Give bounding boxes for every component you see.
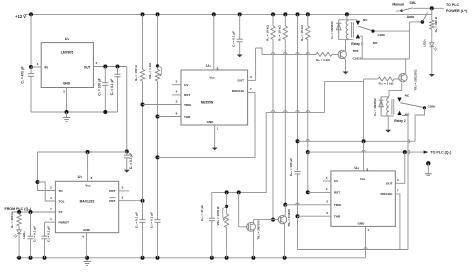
svg-text:C₁₁ = 47 µF: C₁₁ = 47 µF: [200, 205, 204, 221]
svg-text:THR: THR: [334, 214, 341, 218]
relay 2 NO contact: [397, 111, 401, 115]
wire U3 DISCHG pin 7: [248, 91, 255, 93]
svg-text:C₇ = 0.1 µF: C₇ = 0.1 µF: [129, 153, 133, 169]
wire relay1 COM to auto contact: [375, 30, 410, 32]
wire switch to PLC power node: [413, 7, 444, 9]
wire U3 OUT pin 3: [248, 79, 256, 81]
svg-text:R₇ = 460 Ω: R₇ = 460 Ω: [10, 212, 14, 228]
transistor TR3 C1815: [338, 50, 346, 58]
relay 2 NC contact: [397, 98, 401, 102]
svg-text:DISCHG: DISCHG: [232, 89, 245, 93]
ground regulator earth symbol: [66, 112, 68, 118]
wire TR1 base row: [253, 219, 278, 221]
svg-text:R₆ = 10 kΩ: R₆ = 10 kΩ: [300, 25, 304, 41]
wire bottom ground rail: [16, 257, 366, 259]
wire U4 RST pin 4 row: [308, 191, 331, 193]
svg-text:TRIG: TRIG: [184, 103, 192, 107]
svg-text:NC: NC: [405, 94, 410, 98]
svg-text:RST: RST: [334, 191, 340, 195]
svg-text:Manual: Manual: [392, 3, 404, 7]
svg-text:TR₁ = C1815: TR₁ = C1815: [287, 209, 291, 227]
resistor R7 = 460 ohm: [18, 212, 20, 215]
wire relay2 NO down to lower row: [402, 116, 408, 250]
wire U4 CV pin 5 stub: [323, 180, 331, 182]
wire TR4 drain to TR1 base row: [252, 220, 254, 225]
svg-text:Vcc: Vcc: [209, 76, 215, 80]
wire GND pin 3: [66, 88, 68, 113]
potentiometer VR1 = 1 kohm: [157, 14, 159, 69]
svg-text:Vcc: Vcc: [360, 177, 366, 181]
svg-text:R₁₀ = 1 kΩ: R₁₀ = 1 kΩ: [379, 81, 394, 85]
svg-text:R₄ = 10 kΩ: R₄ = 10 kΩ: [265, 25, 269, 41]
op-amp U2 MAX1232 box: [55, 181, 118, 232]
diode D1 = 1N4002: [338, 20, 340, 40]
wire U2 RST pin 5 stub: [119, 190, 129, 192]
svg-text:NC: NC: [363, 18, 368, 22]
wire U4 TRIG pin 2 row: [285, 204, 331, 206]
wire U3 Vcc pin 8 column: [213, 14, 215, 70]
resistor R9 = 1 kohm: [316, 52, 332, 56]
relay 2 coil: [381, 96, 389, 98]
wire TR1 collector: [284, 215, 287, 216]
wire TR2 emitter to coil: [389, 83, 402, 97]
LED1: [431, 29, 433, 42]
svg-text:OUT: OUT: [237, 79, 244, 83]
svg-text:ST: ST: [59, 210, 63, 214]
wire timing row to gate/pot: [212, 112, 266, 192]
wire LED1 to ground: [431, 47, 433, 74]
wire relay2 coil to ground: [387, 116, 389, 130]
capacitor C3 = 0.1 uF: [117, 67, 119, 75]
wire OUT pin 2 (+5V): [93, 66, 126, 68]
wire top +12V rail: [31, 13, 432, 15]
resistor R5 = 10 kohm: [284, 14, 286, 26]
wire VR1 to THR node and C5 column: [157, 81, 159, 220]
wire U3 GND pin 1 to ground: [214, 125, 216, 148]
node TO PLC (Q1): [308, 151, 425, 153]
wire TR3 collector to coil: [345, 40, 347, 51]
svg-text:U₂: U₂: [78, 174, 83, 179]
wire relay1 NO to TR2 collector: [360, 36, 409, 59]
wire +12V drop to IN: [30, 14, 32, 67]
capacitor C10 = 100 uF: [295, 170, 301, 172]
capacitor C1 = 470 uF: [30, 67, 32, 74]
svg-text:NO: NO: [373, 41, 378, 45]
wire U2 TOL pin 3: [38, 182, 56, 201]
svg-text:C₁ = 470 µF: C₁ = 470 µF: [21, 66, 25, 83]
wire U2 TD pin 2: [38, 190, 56, 192]
wire U2 Vcc pin 8: [87, 152, 89, 181]
wire U3 RST pin 4 stub: [172, 94, 181, 96]
svg-text:TO PLC (Q₁): TO PLC (Q₁): [431, 151, 453, 155]
wire TR1 emitter: [284, 223, 286, 225]
svg-text:C₈ = 0.1 µF: C₈ = 0.1 µF: [33, 226, 37, 242]
wire OUT top run to R9: [256, 48, 316, 54]
svg-text:RST: RST: [109, 199, 115, 203]
svg-text:LED₂: LED₂: [22, 231, 26, 239]
wire U4 Vcc pin 8 drop: [363, 141, 365, 171]
svg-text:C₁₀ = 100 µF: C₁₀ = 100 µF: [289, 158, 293, 176]
wire U4 GND pin 1: [365, 226, 367, 257]
wire regulator ground bus: [31, 111, 118, 113]
capacitor C5 = 0.1 uF: [155, 219, 161, 221]
diode D2 = 1N4002: [380, 97, 382, 116]
wire U4 DISCHG pin 7: [395, 194, 400, 250]
capacitor C11 = 47 uF: [211, 192, 213, 218]
wire +5V Vcc row: [38, 151, 127, 153]
wire U2 GND pin 4: [85, 233, 87, 258]
wire U2 ST pin 7: [12, 211, 55, 213]
svg-text:OUT: OUT: [386, 182, 393, 186]
wire R5 column to TRIG2 node: [284, 40, 286, 205]
wire +5V drop to Vcc row: [126, 67, 128, 152]
wire U3 CV pin 5 stub: [172, 84, 181, 86]
transistor TR2 2SC2001: [399, 74, 407, 82]
svg-text:R₅ = 10 kΩ: R₅ = 10 kΩ: [278, 25, 282, 41]
capacitor C6 = 0.1 uF to ground: [239, 14, 241, 39]
svg-text:U₄: U₄: [354, 165, 359, 170]
svg-text:C1815: C1815: [353, 57, 362, 61]
svg-text:GND: GND: [207, 120, 215, 124]
svg-text:COM: COM: [428, 105, 436, 109]
wire U3 THR pin 6: [158, 116, 182, 118]
wire DISCHG vertical to THR feedback row: [158, 92, 256, 157]
svg-text:VR₂ = 1000 Ω: VR₂ = 1000 Ω: [216, 206, 220, 225]
potentiometer VR2 = 1000 ohm: [226, 192, 228, 214]
svg-text:C₉ = 0.1 µF: C₉ = 0.1 µF: [47, 226, 51, 242]
svg-text:R₉ = 1 kΩ: R₉ = 1 kΩ: [316, 58, 330, 62]
wire R2 to TRIG node and C4 column: [142, 81, 144, 201]
svg-text:RST: RST: [184, 93, 190, 97]
wire U3 OUT vertical: [255, 48, 257, 80]
wire U2 PBRST pin 1: [45, 221, 56, 223]
svg-text:LM7805: LM7805: [61, 51, 74, 55]
svg-text:C₃ = 0.1 µF: C₃ = 0.1 µF: [110, 79, 114, 96]
svg-text:C₄ = 5.1 µF: C₄ = 5.1 µF: [134, 212, 138, 228]
wire lower row to TR2 base: [266, 111, 324, 113]
svg-text:SW₁: SW₁: [410, 1, 417, 5]
svg-text:VR₁ = 1 kΩ: VR₁ = 1 kΩ: [148, 63, 152, 79]
svg-text:C₅ = 0.1 µF: C₅ = 0.1 µF: [149, 212, 153, 228]
wire IN pin 1: [31, 66, 41, 68]
wire +12 row to U4 Vcc: [298, 140, 416, 142]
wire U2 /RST pin 6: [119, 200, 143, 202]
wire R6 column to Q1 row: [307, 40, 309, 153]
svg-text:THR: THR: [184, 115, 191, 119]
svg-text:NE555N: NE555N: [201, 101, 214, 105]
svg-text:TO PLC: TO PLC: [446, 3, 460, 7]
wire TR4 source to ground rail: [252, 229, 254, 257]
svg-text:D₁ = 1N4002: D₁ = 1N4002: [330, 21, 334, 39]
wire TR4 gate drop: [239, 192, 247, 226]
wire U4 OUT pin 3: [395, 152, 405, 183]
wire U3 TRIG pin 2: [143, 104, 182, 106]
svg-text:PBRST: PBRST: [59, 221, 70, 225]
svg-text:GND: GND: [63, 82, 71, 86]
svg-text:D₂ = 1N4002: D₂ = 1N4002: [373, 98, 377, 116]
svg-text:TR₂ = 2SC2001: TR₂ = 2SC2001: [414, 69, 418, 91]
svg-text:TR₄ = 2N7000: TR₄ = 2N7000: [256, 220, 260, 240]
resistor R2 = 100 ohm: [142, 14, 144, 69]
svg-text:+12 V: +12 V: [15, 14, 26, 19]
relay 2 armature to COM: [400, 103, 423, 108]
svg-text:TRIG: TRIG: [334, 203, 342, 207]
svg-text:U₃: U₃: [206, 63, 211, 68]
svg-text:GND: GND: [358, 222, 366, 226]
ground main earth symbol: [86, 258, 88, 262]
svg-text:DISCHG: DISCHG: [380, 192, 393, 196]
wire +12 column to U4 Vcc row: [297, 14, 299, 170]
wire TR2 collector: [404, 73, 407, 74]
relay 1 NO contact: [356, 34, 360, 38]
resistor R8 = 430 ohm: [431, 14, 433, 20]
wire TD pullup column: [37, 152, 39, 191]
capacitor C8 = 0.1 uF: [30, 212, 32, 236]
capacitor C7 = 0.1 uF: [126, 152, 128, 156]
svg-text:R₂ = 100 Ω: R₂ = 100 Ω: [134, 65, 138, 81]
svg-text:GND: GND: [83, 228, 91, 232]
transistor TR4 2N7000: [247, 222, 256, 231]
transistor TR1 C1815: [278, 215, 286, 223]
svg-text:C₂ = 100 µF: C₂ = 100 µF: [98, 78, 102, 95]
svg-text:COM: COM: [378, 33, 386, 37]
op-amp U1 LM7805 box: [41, 43, 93, 88]
relay 1 NC contact: [356, 21, 360, 25]
relay 1 armature to COM: [358, 26, 372, 30]
svg-text:R₈ = 430 Ω: R₈ = 430 Ω: [434, 16, 438, 32]
relay 1 coil: [346, 14, 348, 19]
resistor R4 = 10 kohm: [272, 14, 274, 26]
svg-text:TR3: TR3: [353, 49, 359, 53]
resistor R10 = 1 kohm: [378, 77, 394, 81]
svg-text:POWER (L+): POWER (L+): [446, 9, 468, 13]
svg-text:Auto: Auto: [407, 15, 415, 19]
svg-text:RST: RST: [109, 189, 115, 193]
op-amp U3 NE555N box: [181, 70, 248, 125]
resistor R6 = 10 kohm: [307, 14, 309, 26]
wire relay2 COM down to U4 Vcc row: [415, 108, 424, 142]
svg-text:Vcc: Vcc: [85, 184, 91, 188]
svg-text:LED₁: LED₁: [423, 39, 427, 47]
wire TR3 emitter to ground: [344, 58, 345, 60]
capacitor C9 = 0.1 uF: [44, 222, 46, 236]
wire R4 column to TR1 base: [272, 40, 274, 220]
node PLC return with ground: [426, 161, 430, 165]
wire U4 THR pin 6 row: [298, 215, 331, 217]
svg-text:OUT: OUT: [84, 65, 91, 69]
svg-text:U₁: U₁: [65, 36, 70, 41]
wire lower return row: [298, 249, 409, 251]
LED2: [17, 230, 21, 234]
svg-text:TOL: TOL: [59, 199, 65, 203]
svg-text:Relay 2: Relay 2: [394, 119, 406, 123]
svg-text:C₆ = 0.1 µF: C₆ = 0.1 µF: [231, 31, 235, 47]
svg-text:Relay 1: Relay 1: [351, 42, 363, 46]
svg-text:MAX1232: MAX1232: [80, 199, 95, 203]
op-amp U4 DISCHG 555 box: [331, 171, 395, 227]
capacitor C2 = 100 uF: [104, 67, 106, 83]
capacitor C4 = 0.1 uF: [142, 201, 144, 220]
